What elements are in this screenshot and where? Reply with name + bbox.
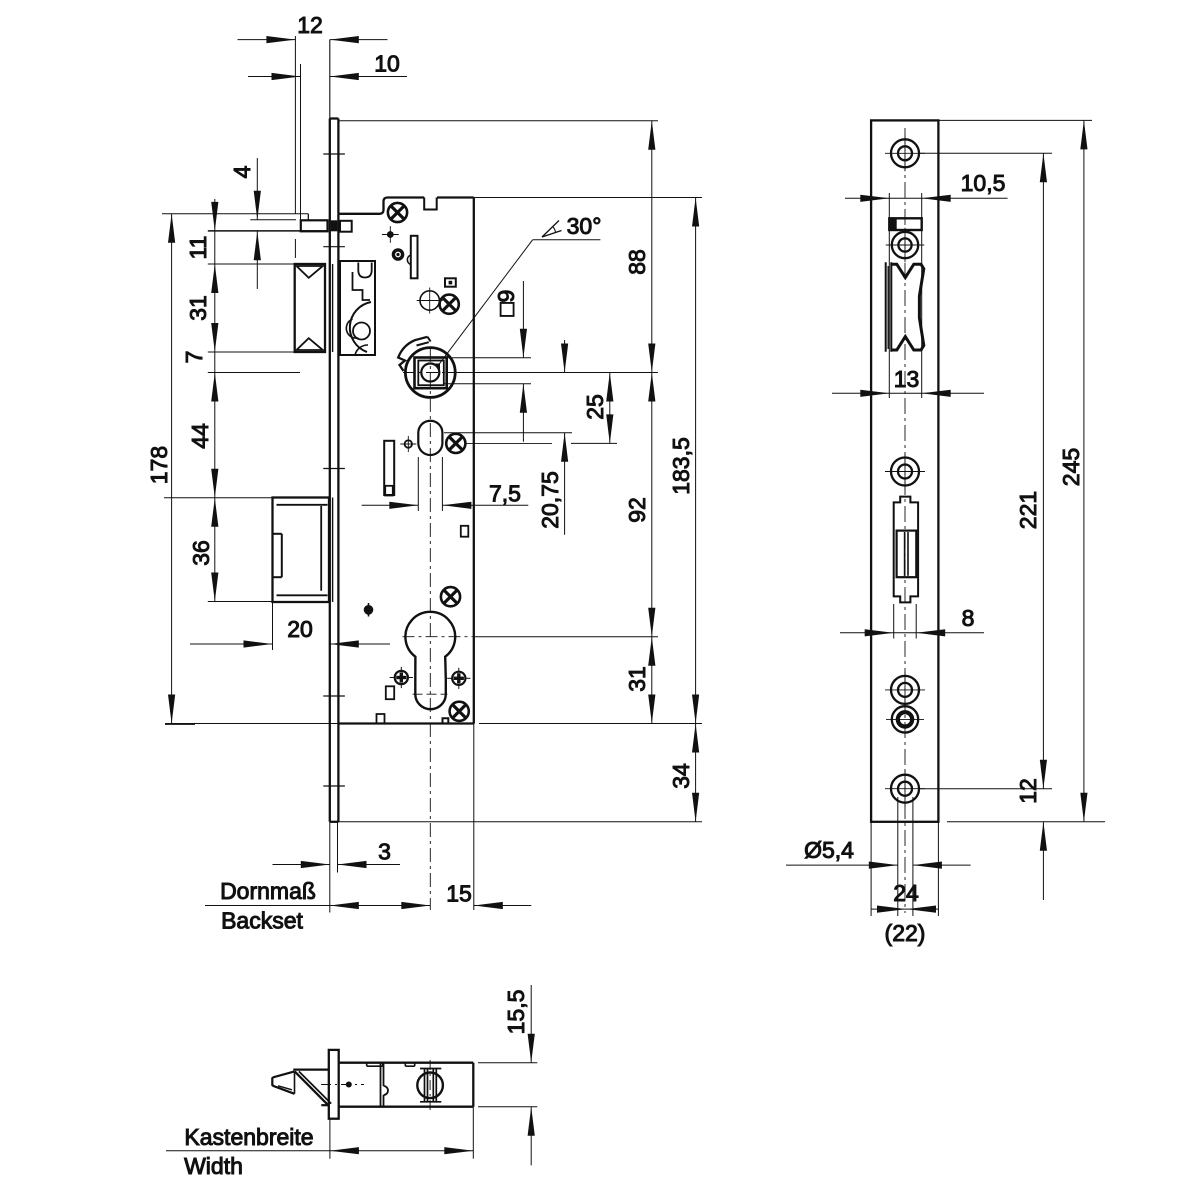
dimension 24 / (22) plate width: [870, 822, 872, 916]
svg-text:44: 44: [187, 423, 213, 449]
dimension 178 (case height): [171, 214, 173, 724]
extension line latch bottom: [208, 351, 296, 353]
dimension 92: [651, 373, 653, 637]
bottom view latch bolt section: [293, 1068, 329, 1070]
svg-text:245: 245: [1058, 448, 1084, 486]
svg-text:Dornmaß: Dornmaß: [220, 878, 316, 904]
svg-text:12: 12: [297, 12, 323, 38]
faceplate center line: [904, 128, 906, 913]
svg-text:20: 20: [287, 616, 313, 642]
svg-text:92: 92: [624, 497, 650, 523]
strike faceplate front view outline: [871, 120, 938, 821]
dimension 183,5: [695, 198, 697, 724]
svg-text:4: 4: [229, 165, 255, 178]
svg-text:12: 12: [1015, 778, 1041, 804]
extension line follower center right: [447, 372, 658, 374]
faceplate screw hole 3: [891, 458, 919, 486]
bottom view top edge notches: [367, 1065, 383, 1067]
dimension 3 (faceplate thickness): [329, 822, 331, 913]
dimension 7,5 (oblong hole width): [417, 457, 419, 511]
dimension 20 (deadbolt throw): [272, 602, 274, 650]
dimension 31 (cylinder to case bottom): [651, 637, 653, 724]
svg-text:3: 3: [378, 839, 391, 865]
svg-text:20,75: 20,75: [537, 471, 563, 529]
notch in case top edge: [424, 198, 437, 210]
bottom view case outline: [339, 1062, 474, 1064]
dimension 34: [695, 724, 697, 822]
dimension 221 (screw distance): [920, 152, 1052, 154]
pin left of oblong hole: [405, 440, 412, 447]
guide circle with crosshair: [420, 291, 439, 310]
lock case outline: [338, 198, 424, 214]
dimension 10 (aux latch protrusion): [300, 64, 302, 220]
center line vertical through follower and cylinder: [429, 348, 431, 910]
dimension 15,5 (case depth): [478, 1062, 537, 1064]
svg-text:□9: □9: [493, 290, 519, 317]
deadbolt window: [894, 497, 918, 603]
dimension square 9 (follower square): [444, 357, 531, 359]
dimension 12 (screw to plate end): [1042, 822, 1044, 900]
faceplate centerline tick marks: [323, 153, 345, 155]
svg-text:10: 10: [374, 51, 400, 77]
deadbolt face: [897, 531, 917, 578]
dimension 8 (deadbolt window): [893, 604, 895, 639]
svg-text:15,5: 15,5: [503, 990, 529, 1035]
euro profile cylinder hole: [405, 612, 455, 709]
screw right of oblong hole: [446, 434, 465, 453]
latch bolt head (Kreuzfalle): [295, 264, 325, 352]
extension line faceplate bottom right: [338, 821, 703, 823]
follower (handle nut) with 9mm square: [405, 348, 455, 398]
svg-text:30°: 30°: [567, 213, 602, 239]
svg-text:221: 221: [1015, 491, 1041, 529]
deadbolt head: [273, 498, 330, 603]
svg-text:31: 31: [185, 295, 211, 321]
svg-text:Backset: Backset: [221, 908, 303, 934]
small rectangle part left of cylinder: [386, 686, 394, 699]
bottom view partition lines: [380, 1063, 382, 1107]
svg-text:Width: Width: [184, 1153, 243, 1179]
svg-text:7,5: 7,5: [489, 481, 521, 507]
notch on case bottom edge: [443, 718, 449, 723]
aux latch window: [889, 218, 921, 230]
dimension 4 (aux latch height): [250, 219, 296, 221]
dimension chain 11/31/7/44/36: [214, 199, 216, 602]
faceplate screw hole top: [891, 139, 919, 167]
leader 30 degrees (cylinder cam angle): [438, 240, 532, 365]
center line through pin and screw row: [466, 442, 552, 444]
dimension Dornmass / Backset and 15: [429, 910, 431, 911]
deadbolt stump detail: [281, 534, 283, 577]
svg-text:88: 88: [624, 249, 650, 275]
main view: faceplate (Stulp) of mortise lock: [329, 40, 331, 119]
center line horizontal through cylinder: [403, 636, 473, 638]
svg-text:36: 36: [188, 540, 214, 566]
svg-text:34: 34: [668, 763, 694, 789]
dimension Kastenbreite / Width: [329, 1119, 331, 1159]
faceplate screw hole 5: [892, 706, 918, 732]
extension line cylinder center right: [474, 636, 658, 638]
svg-text:Ø5,4: Ø5,4: [804, 837, 854, 863]
auxiliary latch body inside case: [340, 221, 352, 232]
svg-text:8: 8: [962, 605, 975, 631]
extension line deadbolt bottom: [208, 601, 273, 603]
latch window with cross latch: [885, 262, 887, 351]
pin at deadbolt tail: [364, 605, 374, 615]
svg-text:25: 25: [582, 394, 608, 420]
svg-text:24: 24: [893, 880, 919, 906]
dimension 20,75: [444, 432, 572, 434]
faceplate screw hole 6: [891, 775, 919, 803]
faceplate screw hole 2: [892, 232, 918, 258]
svg-text:15: 15: [446, 881, 472, 907]
square pin with insert: [445, 278, 456, 286]
screw above cylinder: [441, 587, 460, 606]
dimension 25: [571, 442, 617, 444]
slide plate inside case middle: [384, 441, 394, 495]
oblong hole below follower: [418, 421, 442, 455]
extension line latch top: [208, 263, 296, 265]
bottom view faceplate section: [329, 1050, 339, 1119]
extension line deadbolt top: [164, 497, 273, 499]
svg-text:178: 178: [146, 446, 172, 484]
pin small upper: [387, 231, 394, 238]
svg-text:Kastenbreite: Kastenbreite: [184, 1124, 313, 1150]
svg-text:10,5: 10,5: [961, 170, 1006, 196]
extension line case top right: [474, 197, 702, 199]
extension line faceplate top right: [338, 120, 658, 122]
pin round: [393, 250, 402, 259]
screw bottom-right of case: [450, 702, 469, 721]
svg-text:11: 11: [185, 236, 211, 260]
svg-text:31: 31: [624, 666, 650, 692]
center line horizontal through follower: [403, 372, 460, 374]
dimension 88: [651, 121, 653, 373]
dimension 10,5 (latch window): [888, 193, 890, 398]
dimension diameter 5,4 (screw holes): [897, 797, 899, 916]
dimension 245 (plate length): [939, 119, 1092, 121]
svg-text:13: 13: [894, 366, 920, 392]
small rectangle on case bottom edge left: [377, 714, 385, 724]
small pin rectangle lower right: [461, 526, 469, 537]
svg-text:7: 7: [181, 351, 207, 364]
extension line follower center left: [208, 372, 300, 374]
screw top-left of case: [388, 203, 407, 222]
extension line case top-left: [162, 213, 308, 215]
latch tail mechanism inside case: [340, 261, 375, 355]
phillips screw left of cylinder: [395, 671, 408, 684]
dimension 13 (latch width): [832, 392, 984, 394]
slide plate inside case upper: [411, 236, 418, 278]
auxiliary latch pin (protruding): [301, 220, 328, 231]
follower cam lobe: [398, 337, 427, 371]
screw upper-middle: [440, 295, 459, 314]
phillips screw right of cylinder: [452, 672, 465, 685]
dimension 12 (latch protrusion): [294, 36, 296, 214]
faceplate screw hole 4: [891, 676, 919, 704]
svg-text:(22): (22): [885, 920, 926, 946]
bottom view pin: [346, 1082, 352, 1088]
extension line case bottom right: [479, 723, 702, 725]
svg-text:183,5: 183,5: [668, 437, 694, 495]
bottom view cylinder section: [417, 1073, 443, 1099]
